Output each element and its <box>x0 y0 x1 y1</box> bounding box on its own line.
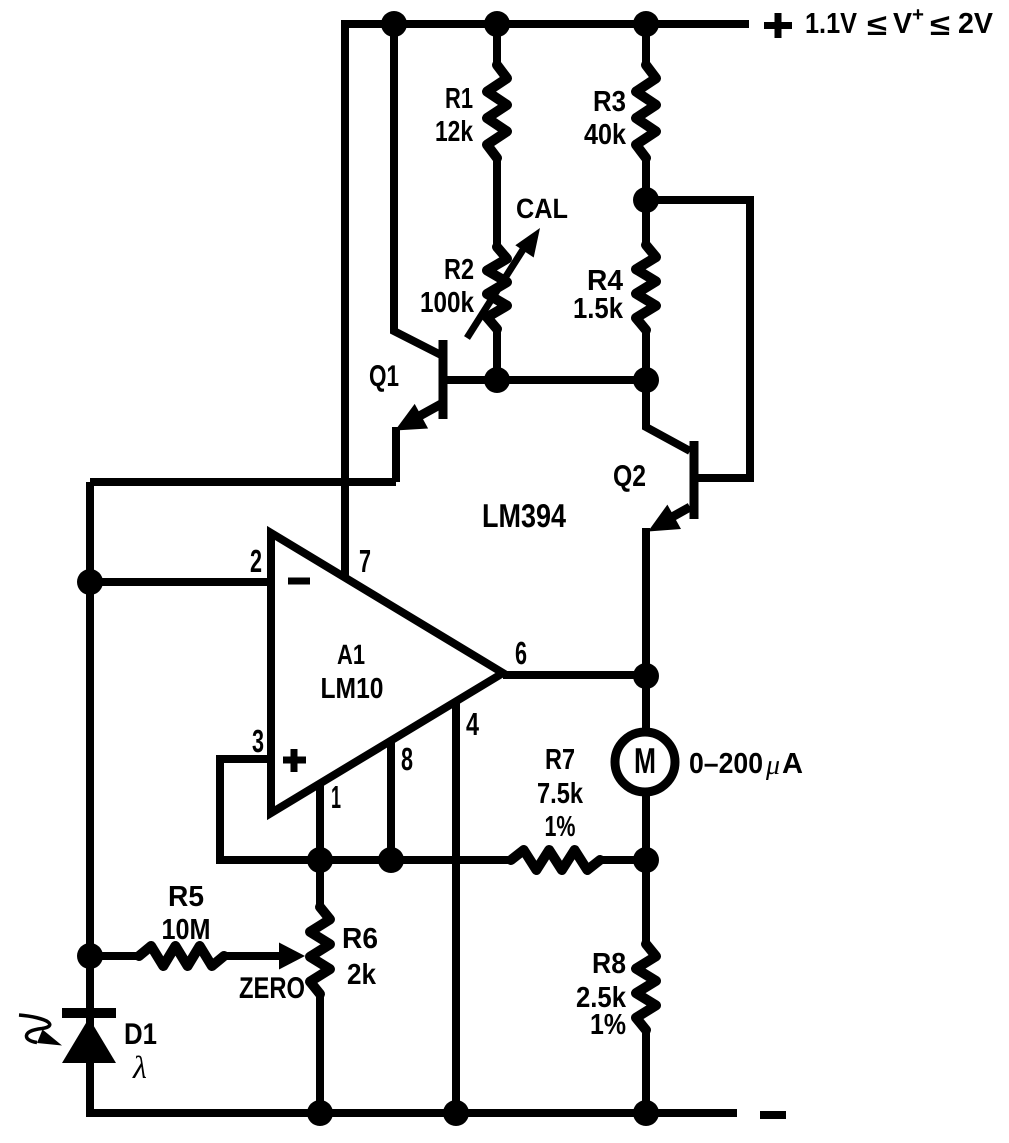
junction node R7 / meter / R8 <box>633 847 659 873</box>
wire R8 bottom lead <box>642 1030 650 1113</box>
wire R1 top lead <box>493 24 501 65</box>
resistor R2 100k (CAL trimmer) <box>487 247 507 329</box>
wire output node to meter <box>642 676 650 729</box>
wire pin2 inverting input <box>90 578 271 586</box>
op-amp A1 LM10 triangle <box>271 533 503 813</box>
svg-text:2k: 2k <box>347 959 377 991</box>
minus symbol bottom rail <box>760 1111 786 1119</box>
light ray squiggle <box>19 1015 50 1043</box>
junction dot top rail / Q1 collector <box>381 11 407 37</box>
wire R2 bottom lead <box>493 329 501 380</box>
R6 ZERO wiper arrowhead <box>279 943 305 970</box>
wire R4 bottom lead <box>642 330 650 380</box>
svg-text:≤: ≤ <box>930 9 950 42</box>
svg-text:4: 4 <box>466 706 479 742</box>
svg-text:2V: 2V <box>958 8 994 40</box>
wire Q1 collector from top rail <box>394 24 441 355</box>
junction dot bottom rail / R8 <box>633 1100 659 1126</box>
svg-text:1%: 1% <box>590 1009 626 1041</box>
svg-text:λ: λ <box>132 1049 147 1085</box>
transistor Q2 base bar <box>690 441 699 519</box>
svg-text:M: M <box>634 740 656 781</box>
junction node pin1 / R6 <box>307 847 333 873</box>
wire pin3 non-inverting input <box>220 759 271 860</box>
wire R7 to meter node <box>600 856 646 864</box>
wire op-amp output pin6 <box>503 671 646 679</box>
wire Q2 emitter lead <box>665 507 690 521</box>
svg-text:1%: 1% <box>545 811 576 843</box>
svg-text:7: 7 <box>359 543 371 579</box>
wire op-amp bottom bus <box>216 856 511 864</box>
svg-text:R3: R3 <box>593 86 626 118</box>
light ray arrowhead <box>37 1030 62 1046</box>
resistor R6 2k (ZERO pot) <box>310 907 330 994</box>
meter M circle <box>615 732 675 792</box>
resistor R8 2.5k 1% <box>636 944 656 1030</box>
svg-text:R5: R5 <box>168 881 204 913</box>
wire Q2 base loop to R3/R4 node <box>646 200 750 478</box>
R2 CAL arrowhead <box>515 228 540 258</box>
svg-text:≤: ≤ <box>867 9 887 42</box>
resistor R1 12k <box>487 65 507 158</box>
svg-text:A: A <box>782 748 803 780</box>
svg-text:R1: R1 <box>445 83 473 115</box>
svg-text:ZERO: ZERO <box>239 972 305 1005</box>
svg-text:0–200: 0–200 <box>689 748 763 780</box>
wire R1 to R2 <box>493 158 501 247</box>
Q1 emitter arrowhead <box>395 404 428 431</box>
Q2 emitter arrowhead <box>648 505 681 532</box>
wire meter to R7/R8 node <box>642 795 650 860</box>
wire bottom negative rail <box>86 1109 737 1117</box>
svg-text:Q1: Q1 <box>369 360 399 393</box>
wire R8 top lead <box>642 860 650 944</box>
op-amp plus input sign <box>283 749 306 772</box>
svg-text:10M: 10M <box>162 914 211 946</box>
wire R6 bottom lead <box>316 994 324 1113</box>
svg-text:μ: μ <box>765 750 780 781</box>
svg-text:LM10: LM10 <box>321 673 384 705</box>
svg-text:1: 1 <box>331 779 341 815</box>
svg-text:R6: R6 <box>342 923 378 955</box>
junction node R4 bottom / Q2 collector <box>633 367 659 393</box>
wire Q1 emitter lead <box>405 403 443 424</box>
junction dot bottom rail / R6 <box>307 1100 333 1126</box>
wire R5 wiper arm to R6 <box>224 952 282 960</box>
svg-text:6: 6 <box>515 635 527 671</box>
wire Q1 emitter down <box>392 427 400 482</box>
svg-text:1.5k: 1.5k <box>573 293 624 325</box>
transistor Q1 base bar <box>439 340 448 419</box>
svg-text:D1: D1 <box>124 1018 157 1051</box>
wire R6 top lead <box>316 860 324 907</box>
svg-text:1.1V: 1.1V <box>805 8 858 40</box>
svg-text:3: 3 <box>252 723 264 759</box>
junction node R5 / left rail <box>77 943 103 969</box>
svg-text:+: + <box>912 4 924 26</box>
resistor R5 10M <box>139 946 224 966</box>
potentiometer R2 wiper arrow shaft <box>467 248 524 338</box>
junction node R2 bottom / base bus <box>484 367 510 393</box>
svg-text:V: V <box>893 8 913 40</box>
wire R3 top lead <box>642 24 650 65</box>
wire R4 top lead <box>642 200 650 245</box>
junction node R3/R4/Q2 base loop <box>633 187 659 213</box>
svg-text:8: 8 <box>401 741 413 777</box>
svg-text:100k: 100k <box>420 287 475 319</box>
svg-text:R2: R2 <box>444 254 474 286</box>
resistor R3 40k <box>636 65 656 158</box>
wire R3 to node <box>642 158 650 200</box>
junction dot top rail / R3 <box>633 11 659 37</box>
wire left rail vertical <box>86 482 94 1113</box>
svg-text:7.5k: 7.5k <box>537 778 584 810</box>
wire V+ top rail and pin7 supply line <box>345 24 749 578</box>
plus symbol top rail <box>764 13 792 38</box>
wire Q2 emitter down to output node <box>642 528 650 676</box>
svg-text:CAL: CAL <box>516 193 568 224</box>
wire R5 left lead <box>90 952 139 960</box>
junction node pin8 <box>378 847 404 873</box>
svg-text:40k: 40k <box>584 119 627 151</box>
D1 photodiode triangle <box>62 1018 116 1063</box>
svg-text:R7: R7 <box>545 744 575 776</box>
resistor R4 1.5k <box>636 245 656 330</box>
wire pin8 <box>387 740 395 860</box>
junction node output pin6 / Q2 emitter <box>633 663 659 689</box>
wire Q1 base lead <box>447 376 497 384</box>
wire inverting input feedback: left rail horizontal <box>90 478 396 486</box>
svg-text:A1: A1 <box>337 639 365 670</box>
op-amp minus input sign <box>288 578 310 585</box>
svg-text:2: 2 <box>250 543 262 579</box>
wire pin4 to bottom rail <box>452 701 460 1113</box>
resistor R7 7.5k 1% <box>511 850 600 870</box>
svg-text:12k: 12k <box>435 116 474 148</box>
svg-text:R8: R8 <box>592 948 626 980</box>
junction node pin2 / left rail <box>77 569 103 595</box>
svg-text:Q2: Q2 <box>613 460 646 493</box>
wire pin1 <box>316 783 324 860</box>
svg-text:LM394: LM394 <box>482 497 567 534</box>
D1 photodiode cathode bar <box>62 1008 116 1018</box>
junction dot bottom rail / pin4 <box>443 1100 469 1126</box>
junction dot top rail / R1 <box>484 11 510 37</box>
wire Q2 collector lead <box>646 380 690 451</box>
wire base bus Q1 to R4 node <box>447 376 646 384</box>
